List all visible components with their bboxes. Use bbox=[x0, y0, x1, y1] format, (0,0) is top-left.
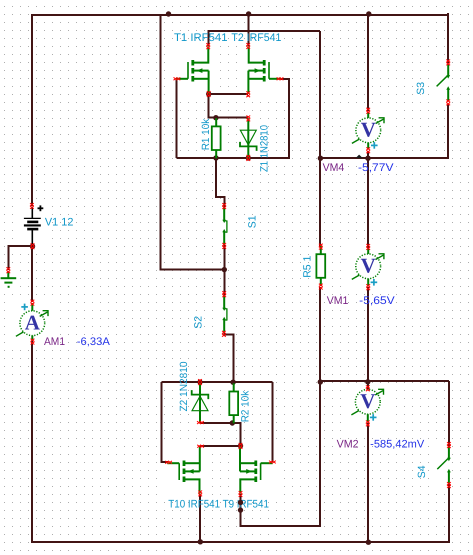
pin VM1 - bbox=[366, 284, 370, 290]
wire top rail y=14 bbox=[32, 14, 448, 16]
pin Z1 bottom bbox=[246, 155, 250, 161]
wire y=158 segment to VM1 top bbox=[367, 158, 369, 248]
wire VM1 bottom to y=382 segment bbox=[367, 287, 369, 382]
voltmeter VM1 lead top bbox=[367, 249, 369, 255]
wire rail x=320 upper (to R5) bbox=[319, 31, 321, 247]
pin T9 drain bbox=[239, 491, 243, 497]
wire y=382 right segment bbox=[320, 380, 449, 382]
switch S4 (open) bbox=[437, 447, 451, 484]
svg-text:-6,33A: -6,33A bbox=[77, 336, 111, 348]
pin S4 bottom bbox=[447, 482, 451, 488]
wire T10 drain down to bottom rail bbox=[199, 494, 201, 542]
pin T2 gate bbox=[277, 77, 284, 80]
svg-text:VM2: VM2 bbox=[337, 438, 359, 450]
ammeter AM1 bbox=[16, 304, 48, 337]
wire y=382 left segment (gate bus of T10/T9) bbox=[162, 381, 273, 383]
wire T2 drain to top rail junction bbox=[248, 13, 250, 46]
node R1 top junction bbox=[213, 115, 218, 120]
voltmeter VM2 bbox=[351, 389, 383, 421]
pin S3 bottom bbox=[446, 100, 450, 106]
svg-text:V1 12: V1 12 bbox=[45, 217, 74, 229]
node T9 source junction bbox=[238, 443, 243, 448]
pin T1 drain bbox=[206, 43, 210, 49]
wire S3 bottom to y=158 segment bbox=[447, 104, 449, 159]
svg-text:S1: S1 bbox=[247, 215, 259, 228]
wire right end down to T9 gate bbox=[271, 382, 273, 462]
pin Z2 top bbox=[198, 379, 202, 385]
wire rail x=320 mid (R5 to lower node) bbox=[319, 287, 321, 382]
svg-text:-5,77V: -5,77V bbox=[358, 162, 394, 174]
pin S2 top bbox=[222, 291, 226, 297]
svg-text:Z2 1N2810: Z2 1N2810 bbox=[178, 361, 190, 411]
pin Z2 bottom bbox=[197, 421, 204, 424]
svg-text:T2 IRF541: T2 IRF541 bbox=[231, 32, 281, 44]
svg-text:R2 10k: R2 10k bbox=[240, 390, 252, 422]
pin AM1 - bbox=[31, 339, 35, 345]
node x=320 rail at y=158 bbox=[318, 156, 323, 161]
wire top rail junction down to VM4 + bbox=[367, 14, 369, 111]
node Z1 bottom junction bbox=[246, 155, 251, 160]
wire S4 bottom to bottom rail corner bbox=[448, 484, 450, 543]
pin S2 bottom bbox=[222, 331, 226, 337]
pin S1 bottom bbox=[222, 243, 226, 249]
transistor T9 IRF541 (NMOS, rotated 180) bbox=[240, 446, 273, 494]
wire T9 drain down to x=320 return (over label) bbox=[240, 494, 242, 527]
node top rail junction C (x=368.8) bbox=[366, 11, 371, 16]
pin T1 gate bbox=[174, 77, 181, 80]
pin T10 source bbox=[197, 445, 204, 448]
wire stub at junction x=168.5 bbox=[168, 14, 170, 15]
wire T10 source to T9 source junction bbox=[200, 445, 240, 447]
battery V1 12V bbox=[24, 205, 43, 246]
pin R5 top bbox=[319, 244, 323, 250]
node top rail junction A (x=168.5) bbox=[166, 11, 171, 16]
pin V1 -/junction bbox=[31, 243, 35, 249]
voltmeter VM2 lead bottom bbox=[367, 414, 369, 423]
pin T2 drain bbox=[246, 43, 250, 49]
pin T9 gate bbox=[269, 461, 276, 464]
pin S3 top bbox=[446, 60, 450, 66]
wire T1 gate drop bbox=[175, 79, 177, 158]
svg-text:S3: S3 bbox=[415, 82, 427, 95]
pin R5 bottom bbox=[319, 284, 323, 290]
voltmeter VM1 lead bottom bbox=[367, 279, 369, 287]
pin S1 top bbox=[222, 203, 226, 209]
wire bottom rail y=542 bbox=[31, 541, 450, 543]
transistor T1 IRF541 (NMOS) bbox=[176, 46, 209, 94]
svg-text:Z1 1N2810: Z1 1N2810 bbox=[259, 125, 271, 172]
wire T1 source junction to T2 source bbox=[209, 93, 249, 95]
svg-text:S2: S2 bbox=[192, 316, 204, 329]
svg-text:R1 10k: R1 10k bbox=[200, 118, 212, 150]
wire top rail to S3 top bbox=[447, 13, 449, 63]
switch S2 (closed) bbox=[222, 296, 227, 333]
node bottom rail at T10 drain bbox=[198, 539, 203, 544]
node S1/S2 branch junction bbox=[222, 267, 227, 272]
svg-text:R5 1: R5 1 bbox=[302, 255, 314, 277]
voltmeter VM4 polarity caret bbox=[356, 155, 363, 158]
wire left segment down to T10 gate bbox=[162, 382, 169, 462]
pin AM1 + bbox=[31, 300, 35, 306]
wire S1 bottom to node to S2 top bbox=[223, 245, 225, 295]
component footprint whiteouts bbox=[172, 42, 214, 98]
pin T10 drain bbox=[198, 491, 202, 497]
node battery/ground junction bbox=[30, 244, 35, 249]
wire gate bus: T1 gate bottom, y=158 left segment, up to T2 gate bbox=[176, 79, 289, 158]
wire T1 source down to R1 top node and Z1 top bbox=[209, 93, 248, 118]
svg-text:-585,42mV: -585,42mV bbox=[370, 438, 425, 450]
ground bbox=[1, 271, 17, 287]
wire y=382 junction to VM2 + bbox=[367, 382, 369, 389]
pin S4 top bbox=[447, 442, 451, 448]
svg-text:S4: S4 bbox=[416, 465, 428, 478]
pin VM2 + bbox=[366, 385, 370, 391]
switch S1 (closed) bbox=[222, 208, 227, 245]
wire S2 bottom jog to R2 top node bbox=[224, 333, 233, 383]
wire battery - to AM1 + bbox=[31, 246, 33, 302]
pin T2 source bbox=[246, 91, 250, 97]
svg-text:-5,65V: -5,65V bbox=[359, 295, 395, 307]
svg-text:VM1: VM1 bbox=[327, 295, 349, 307]
voltmeter VM4 lead top bbox=[367, 112, 369, 118]
svg-text:AM1: AM1 bbox=[44, 336, 65, 348]
node x=320 rail at y=382 bbox=[318, 379, 323, 384]
pin VM1 + bbox=[366, 244, 370, 250]
ammeter AM1 lead top bbox=[31, 303, 33, 311]
wire Z2 bottom to R2 bottom node, down to T9 source node bbox=[200, 423, 240, 446]
pin VM2 - bbox=[366, 421, 370, 427]
pin VM4 + bbox=[366, 108, 370, 114]
pin ground bbox=[6, 267, 10, 273]
svg-text:VM4: VM4 bbox=[323, 162, 345, 174]
zener diode Z1 1N2810 bbox=[240, 118, 257, 158]
wire T1 drain up and over to x=320 rail bbox=[209, 31, 321, 46]
ammeter AM1 lead bottom bbox=[31, 336, 33, 342]
node R2 top / S2 junction bbox=[230, 380, 235, 385]
wire left rail from top to battery V1 + bbox=[31, 14, 33, 206]
node T9 drain wire dot 2 bbox=[238, 507, 243, 512]
svg-text:A: A bbox=[25, 310, 41, 334]
transistor T2 IRF541 (NMOS, mirrored) bbox=[248, 46, 281, 94]
zener diode Z2 1N2810 bbox=[192, 383, 209, 423]
voltmeter VM2 lead top bbox=[367, 389, 369, 390]
node T1 source junction bbox=[206, 91, 211, 96]
node T9 drain wire dot 1 bbox=[238, 500, 243, 505]
svg-text:T10 IRF541 T9 IRF541: T10 IRF541 T9 IRF541 bbox=[168, 499, 269, 511]
pin T1 source bbox=[207, 91, 211, 97]
svg-text:V: V bbox=[361, 118, 376, 142]
wire R1 node down-jog to S1 top bbox=[216, 158, 225, 207]
pin T10 gate bbox=[165, 461, 172, 464]
wire AM1 - down to bottom rail bbox=[31, 341, 33, 543]
resistor R5 1 bbox=[316, 246, 325, 286]
resistor R2 10k bbox=[229, 383, 238, 423]
wire VM4 - to y=158 segment bbox=[367, 151, 369, 159]
node R2 bottom junction bbox=[230, 420, 235, 425]
resistor R1 10k bbox=[212, 118, 221, 158]
svg-text:V: V bbox=[361, 254, 376, 278]
pin T9 source bbox=[239, 443, 243, 449]
node Z2 top junction bbox=[197, 379, 202, 384]
wire top rail drop x=160.5 to S1/S2 node bbox=[161, 14, 225, 270]
wire VM2 - down to bottom rail bbox=[367, 423, 369, 543]
node R1 bottom / gate bus junction bbox=[213, 155, 218, 160]
pin Z1 top bbox=[246, 116, 250, 122]
node bottom rail at VM2 branch bbox=[366, 540, 371, 545]
op-amp… voltmeter VM4 bbox=[352, 118, 384, 149]
wire rail x=320 lower, left to T9 drain riser bbox=[241, 382, 321, 526]
pin V1 + bbox=[30, 203, 34, 209]
svg-text:V: V bbox=[360, 389, 375, 413]
switch S3 (open) bbox=[437, 64, 451, 101]
transistor T10 IRF541 (NMOS, v-flipped) bbox=[167, 446, 200, 494]
wire y=382 segment down to S4 top bbox=[448, 381, 450, 446]
node top rail junction B (x=248.5) bbox=[246, 11, 251, 16]
voltmeter VM1 bbox=[352, 254, 384, 286]
voltmeter VM4 lead bottom bbox=[367, 143, 369, 150]
svg-text:T1 IRF541: T1 IRF541 bbox=[174, 32, 228, 44]
node VM4 bottom junction bbox=[365, 156, 370, 161]
wire y=158 right segment bbox=[320, 157, 449, 159]
node VM2 top junction bbox=[365, 379, 370, 384]
wire battery - node to ground bbox=[8, 246, 33, 270]
pin VM4 - bbox=[366, 147, 370, 153]
